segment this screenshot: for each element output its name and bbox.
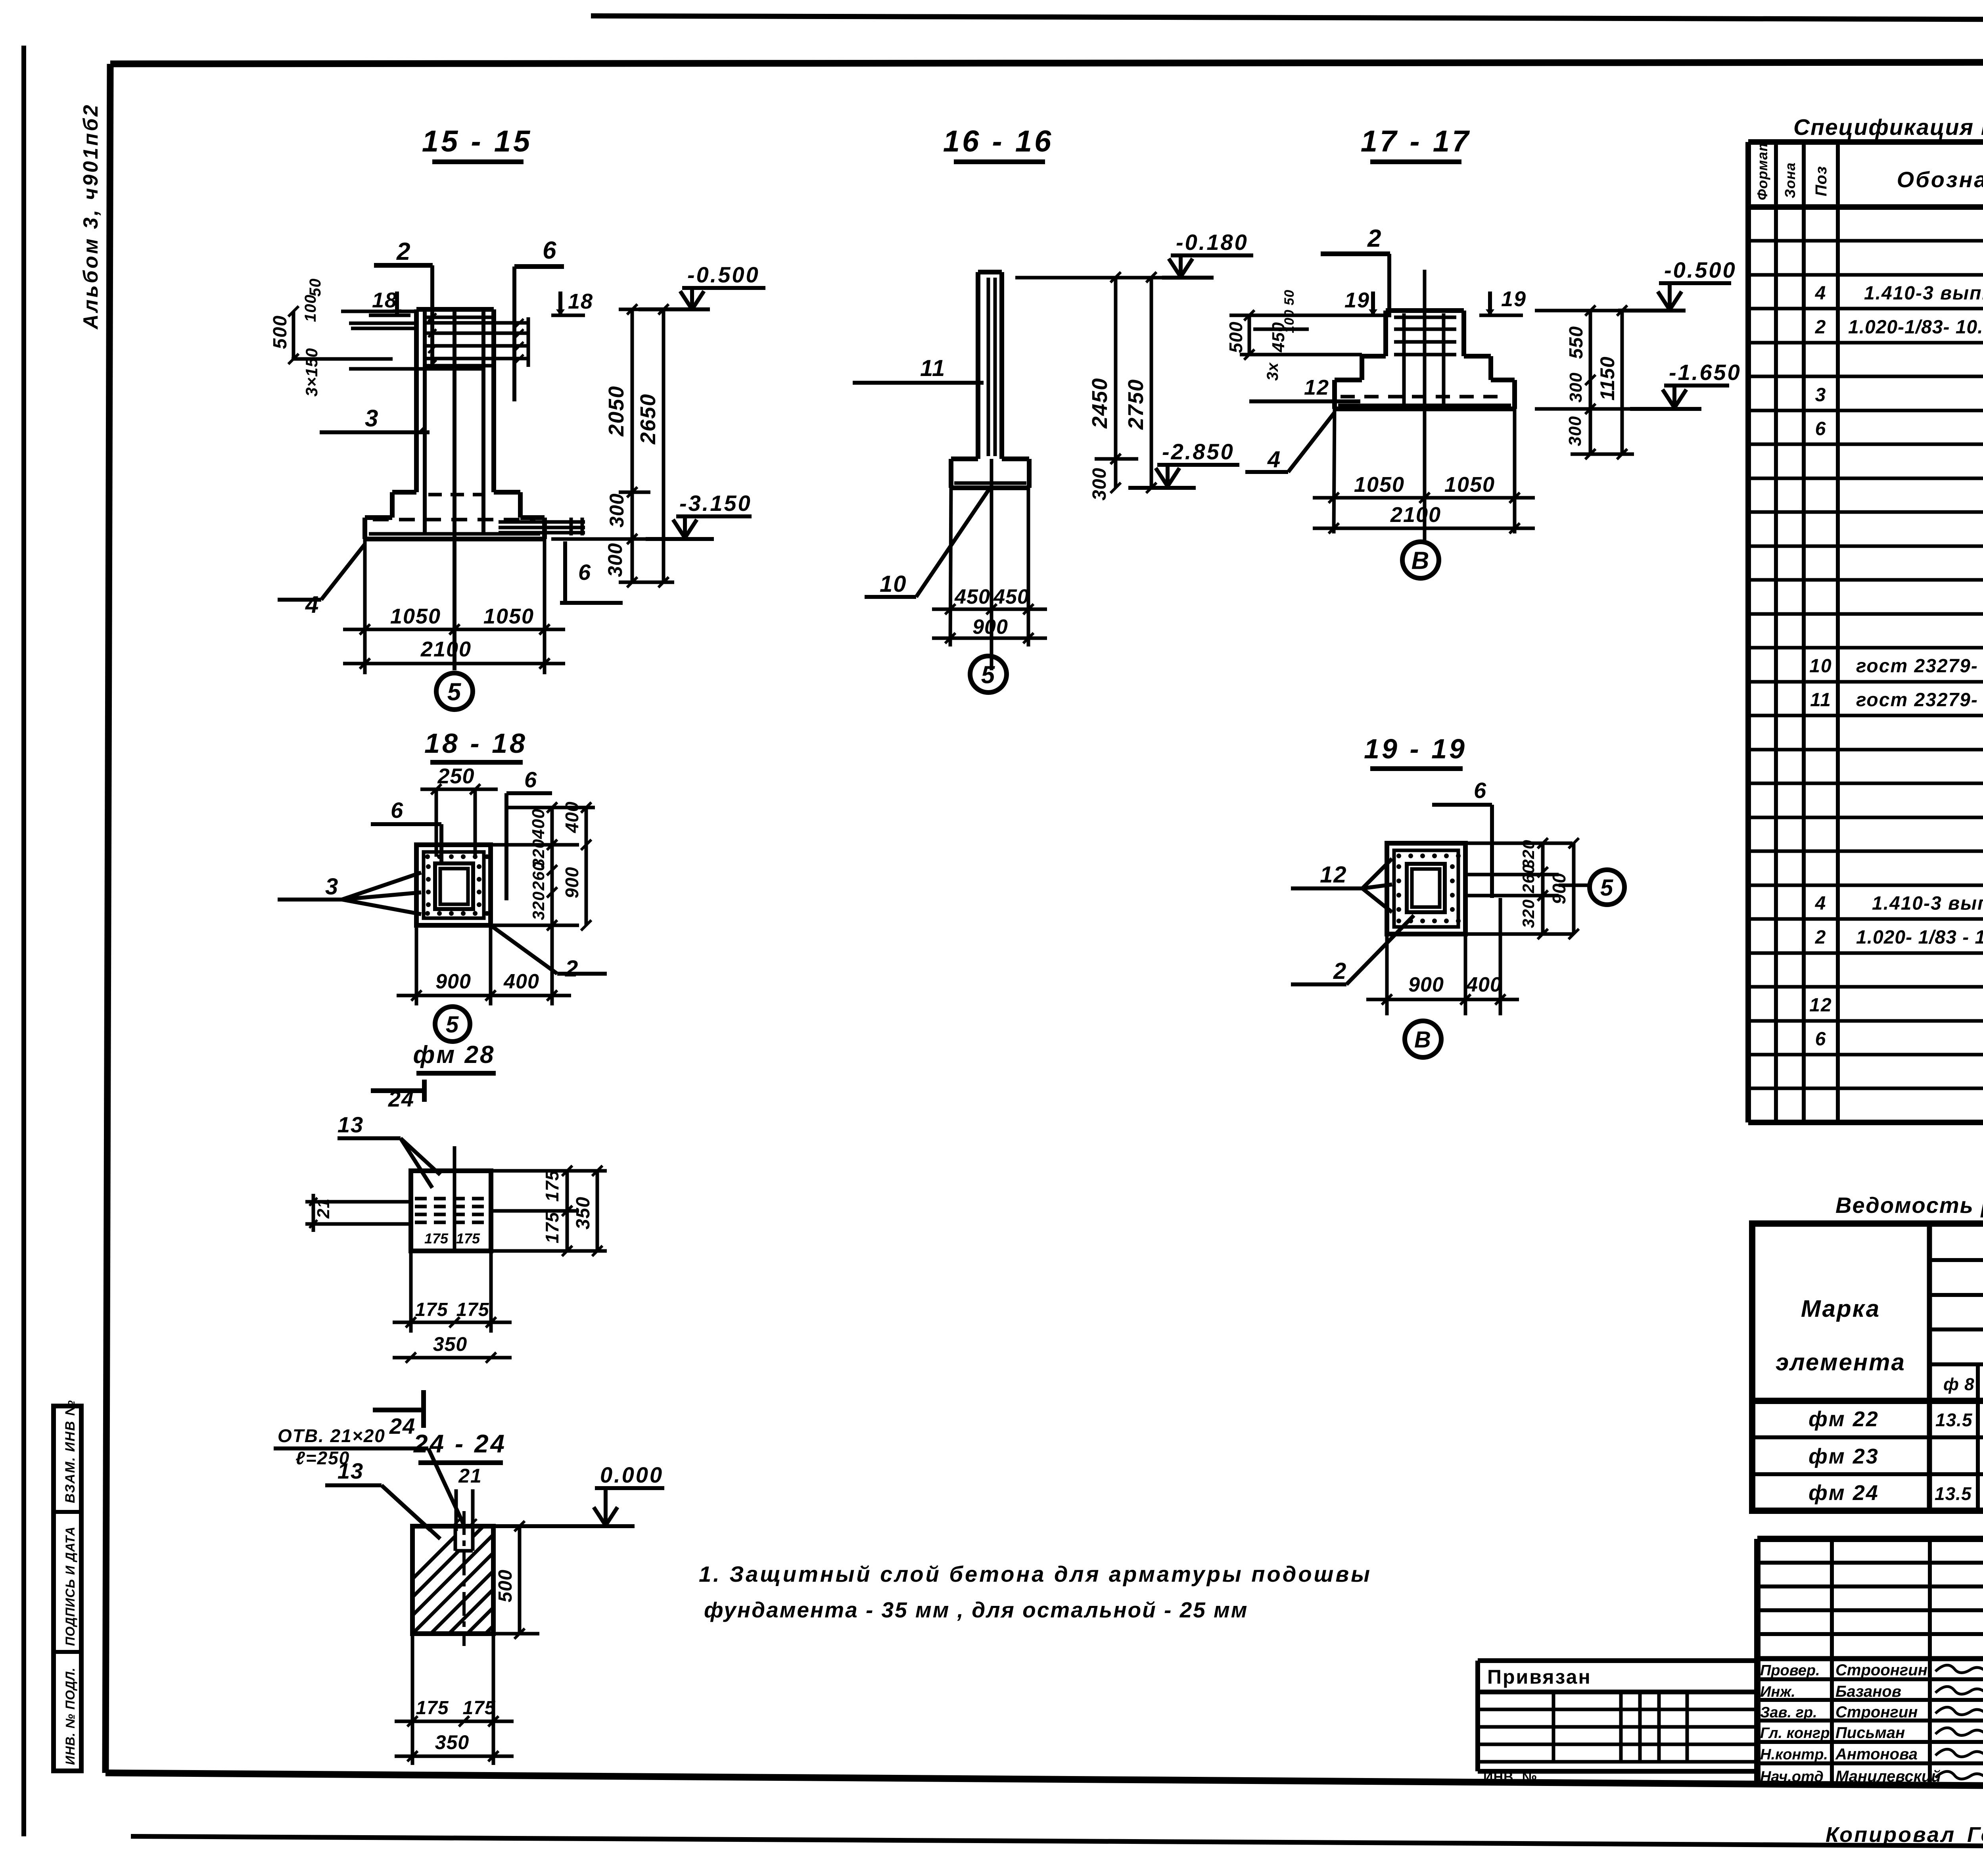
leader 4 (17-17) bbox=[1288, 412, 1335, 472]
svg-text:18 - 18: 18 - 18 bbox=[424, 728, 527, 759]
svg-text:гост 23279- 85: гост 23279- 85 bbox=[1856, 690, 1983, 711]
section cut marker 24 (upper) bbox=[371, 1088, 422, 1093]
svg-text:Поз: Поз bbox=[1812, 166, 1830, 196]
svg-text:1.020-1/83- 10.3 0-01: 1.020-1/83- 10.3 0-01 bbox=[1848, 317, 1983, 338]
dimension 2100 (15-15) bbox=[343, 662, 565, 666]
sheet outer bottom border bbox=[131, 1836, 1983, 1849]
svg-text:900: 900 bbox=[435, 970, 471, 993]
sheet outer left border bbox=[21, 46, 26, 1836]
dimension 550/300/300 (17-17) bbox=[1589, 311, 1592, 454]
svg-text:Н.контр.: Н.контр. bbox=[1760, 1746, 1828, 1763]
svg-text:2100: 2100 bbox=[420, 637, 472, 661]
rebar dots 19-19 bbox=[1396, 854, 1401, 858]
svg-text:Манилевский: Манилевский bbox=[1835, 1768, 1941, 1785]
svg-text:18: 18 bbox=[568, 290, 593, 313]
svg-text:13.5: 13.5 bbox=[1935, 1410, 1973, 1430]
svg-text:12: 12 bbox=[1320, 862, 1347, 888]
svg-text:Нач.отд: Нач.отд bbox=[1760, 1769, 1824, 1785]
svg-text:350: 350 bbox=[435, 1731, 469, 1753]
svg-text:500: 500 bbox=[270, 315, 291, 349]
svg-text:элемента: элемента bbox=[1776, 1349, 1906, 1375]
svg-text:1. Защитный слой бетона для ар: 1. Защитный слой бетона для арматуры под… bbox=[699, 1561, 1372, 1586]
svg-text:19 - 19: 19 - 19 bbox=[1364, 733, 1467, 764]
column of section 15-15 bbox=[416, 307, 494, 312]
section cut marker 24 (lower) bbox=[373, 1408, 421, 1412]
svg-text:ВЗАМ. ИНВ №: ВЗАМ. ИНВ № bbox=[63, 1400, 78, 1503]
dimension 1150 (17-17) bbox=[1621, 311, 1624, 454]
svg-text:19: 19 bbox=[1344, 288, 1370, 312]
leader 4 (15-15) bbox=[321, 544, 365, 600]
svg-text:Зона: Зона bbox=[1782, 162, 1798, 198]
svg-text:50: 50 bbox=[307, 278, 324, 297]
svg-text:300: 300 bbox=[604, 543, 626, 577]
dimension 1050+1050 (17-17) bbox=[1313, 496, 1535, 500]
dimension 500 (left 17-17) bbox=[1248, 315, 1251, 355]
svg-text:175: 175 bbox=[456, 1230, 480, 1247]
svg-text:ИНВ. № ПОДЛ.: ИНВ. № ПОДЛ. bbox=[63, 1667, 77, 1765]
svg-text:4: 4 bbox=[305, 591, 319, 618]
hatched block (24-24) bbox=[412, 1526, 493, 1634]
rebar cage 17-17 bbox=[1394, 316, 1456, 319]
svg-text:1050: 1050 bbox=[483, 604, 534, 628]
svg-text:13: 13 bbox=[338, 1458, 364, 1483]
svg-text:1.020- 1/83 - 10. 3. 0- 01: 1.020- 1/83 - 10. 3. 0- 01 bbox=[1856, 927, 1983, 948]
sheet outer top border bbox=[591, 16, 1983, 21]
svg-text:ОТВ. 21×20: ОТВ. 21×20 bbox=[278, 1425, 385, 1446]
svg-text:5: 5 bbox=[446, 1012, 459, 1038]
dimension 1050+1050 (15-15) bbox=[343, 628, 565, 631]
svg-text:3x: 3x bbox=[1264, 362, 1281, 381]
svg-text:-3.150: -3.150 bbox=[679, 491, 752, 516]
svg-text:1.410-3 вып. 1: 1.410-3 вып. 1 bbox=[1872, 893, 1983, 914]
svg-text:2: 2 bbox=[1815, 927, 1827, 948]
main frame bottom bbox=[105, 1773, 1983, 1790]
svg-text:5: 5 bbox=[447, 678, 462, 706]
axis circle 5 (16-16) bbox=[970, 656, 1007, 692]
rebar dashes in slice (24) bbox=[415, 1197, 487, 1201]
svg-text:2450: 2450 bbox=[1088, 378, 1112, 429]
hidden rebar dashes 15-15 bbox=[428, 493, 482, 497]
svg-text:Инж.: Инж. bbox=[1760, 1684, 1795, 1700]
svg-text:4: 4 bbox=[1815, 893, 1827, 914]
wall of section 16-16 bbox=[978, 270, 1002, 274]
svg-text:ИНВ. №: ИНВ. № bbox=[1483, 1770, 1537, 1785]
svg-text:Антонова: Антонова bbox=[1835, 1746, 1918, 1763]
bottom extension lines (15-15) bbox=[363, 539, 367, 674]
footing slab 15-15 bbox=[365, 515, 392, 520]
axis circle B (19-19) bbox=[1405, 1021, 1441, 1057]
svg-text:6: 6 bbox=[1474, 778, 1487, 803]
svg-text:10: 10 bbox=[1809, 656, 1832, 677]
dimension line 2650 (15-15) bbox=[662, 309, 665, 582]
svg-text:320: 320 bbox=[529, 891, 548, 920]
title block outer box bbox=[1757, 1536, 1983, 1542]
dimension line 2050/300/300 (15-15) bbox=[631, 309, 634, 582]
svg-text:400: 400 bbox=[1466, 973, 1502, 996]
svg-text:ПОДПИСЬ И ДАТА: ПОДПИСЬ И ДАТА bbox=[63, 1526, 77, 1646]
svg-text:фм 22: фм 22 bbox=[1808, 1407, 1879, 1431]
plan square 19-19 bbox=[1387, 843, 1465, 934]
svg-text:17 - 17: 17 - 17 bbox=[1361, 125, 1471, 158]
svg-text:15 - 15: 15 - 15 bbox=[422, 125, 533, 158]
svg-text:12: 12 bbox=[1809, 995, 1832, 1016]
svg-text:3×150: 3×150 bbox=[302, 348, 321, 397]
svg-text:16 - 16: 16 - 16 bbox=[943, 125, 1054, 158]
svg-text:300: 300 bbox=[606, 493, 628, 528]
svg-text:13.5: 13.5 bbox=[1935, 1483, 1972, 1504]
svg-text:320: 320 bbox=[1519, 899, 1538, 928]
svg-text:300: 300 bbox=[1565, 416, 1585, 446]
steel table grid bbox=[1752, 1224, 1983, 1511]
svg-text:6: 6 bbox=[1815, 1029, 1827, 1050]
svg-text:400: 400 bbox=[529, 809, 548, 839]
svg-text:24: 24 bbox=[388, 1086, 414, 1111]
left stamp boxes bbox=[54, 1406, 81, 1771]
svg-text:Провер.: Провер. bbox=[1760, 1662, 1820, 1679]
svg-text:500: 500 bbox=[495, 1569, 516, 1602]
svg-text:3: 3 bbox=[325, 874, 339, 900]
svg-text:175: 175 bbox=[415, 1299, 448, 1320]
left extension lines 17-17 bbox=[1229, 314, 1386, 317]
title block signature rows bbox=[1757, 1677, 1983, 1681]
svg-text:фм 24: фм 24 bbox=[1808, 1481, 1879, 1505]
axis circle 5 (18-18) bbox=[435, 1007, 470, 1042]
dimension 500 (24-24) bbox=[493, 1632, 539, 1636]
svg-text:260: 260 bbox=[529, 861, 548, 891]
svg-text:21: 21 bbox=[458, 1465, 482, 1487]
dimension 500 (left 15-15) bbox=[292, 311, 295, 359]
svg-text:2: 2 bbox=[1333, 958, 1347, 984]
svg-text:В: В bbox=[1414, 1027, 1432, 1053]
dimension 2100 (17-17) bbox=[1313, 527, 1535, 530]
bottom extension lines (16-16) bbox=[950, 488, 951, 646]
svg-text:175: 175 bbox=[416, 1698, 449, 1719]
svg-text:В: В bbox=[1411, 547, 1430, 574]
svg-text:Альбом 3, ч901пб2: Альбом 3, ч901пб2 bbox=[79, 103, 102, 330]
svg-text:350: 350 bbox=[433, 1333, 467, 1355]
svg-text:175: 175 bbox=[462, 1698, 495, 1719]
svg-text:24: 24 bbox=[389, 1414, 416, 1439]
svg-text:1.410-3 вып. 1: 1.410-3 вып. 1 bbox=[1864, 283, 1983, 304]
bottom dimensions 175+175 / 350 (24) bbox=[409, 1251, 413, 1333]
svg-text:фундамента - 35 мм , для остал: фундамента - 35 мм , для остальной - 25 … bbox=[704, 1598, 1248, 1622]
svg-text:2: 2 bbox=[1815, 317, 1827, 338]
svg-text:450: 450 bbox=[954, 585, 990, 608]
right dimensions 175/175/350 (24) bbox=[491, 1169, 607, 1173]
column slice rectangle (24) bbox=[411, 1171, 491, 1251]
svg-text:Формат: Формат bbox=[1754, 138, 1770, 200]
svg-text:450: 450 bbox=[993, 585, 1029, 608]
specification table grid bbox=[1745, 142, 1751, 1122]
dimension 450+450 (16-16) bbox=[932, 608, 1047, 611]
hole outline (24-24) bbox=[454, 1526, 457, 1551]
svg-text:5: 5 bbox=[981, 661, 995, 689]
footing steps 15-15 bbox=[392, 490, 416, 495]
svg-text:гост 23279- 85: гост 23279- 85 bbox=[1856, 656, 1983, 677]
privyazan grid bbox=[1478, 1708, 1757, 1711]
bottom extension lines (17-17) bbox=[1334, 409, 1335, 533]
svg-text:3: 3 bbox=[1815, 384, 1827, 405]
svg-text:1150: 1150 bbox=[1596, 356, 1619, 401]
svg-text:Спецификация монолитных фунд: Спецификация монолитных фундаментов фм22… bbox=[1793, 115, 1983, 140]
svg-text:250: 250 bbox=[437, 764, 474, 788]
svg-text:400: 400 bbox=[503, 970, 539, 993]
svg-text:18: 18 bbox=[372, 288, 397, 312]
svg-text:175: 175 bbox=[542, 1170, 562, 1202]
svg-text:3: 3 bbox=[365, 405, 379, 432]
svg-text:2050: 2050 bbox=[604, 386, 628, 437]
svg-text:260: 260 bbox=[1519, 864, 1538, 894]
privyazan box bbox=[1475, 1661, 1480, 1771]
svg-text:4: 4 bbox=[1267, 447, 1281, 472]
bottom dimensions 175+175 / 350 (24-24) bbox=[411, 1634, 414, 1765]
svg-text:400: 400 bbox=[562, 801, 582, 833]
rebar dots 18-18 bbox=[425, 854, 430, 859]
dimension 2450 (16-16) bbox=[1114, 277, 1118, 488]
svg-text:100: 100 bbox=[302, 294, 319, 322]
svg-text:-0.500: -0.500 bbox=[687, 262, 760, 287]
dimension 2750 (16-16) bbox=[1150, 277, 1153, 488]
main frame top bbox=[110, 62, 1983, 64]
svg-text:11: 11 bbox=[1810, 690, 1831, 711]
svg-text:900: 900 bbox=[972, 616, 1008, 639]
svg-text:Марка: Марка bbox=[1801, 1295, 1880, 1322]
pedestal of section 17-17 bbox=[1386, 308, 1464, 313]
svg-text:2650: 2650 bbox=[636, 393, 660, 445]
axis circle B (17-17) bbox=[1402, 542, 1439, 578]
svg-text:10: 10 bbox=[880, 571, 907, 597]
svg-text:19: 19 bbox=[1501, 287, 1527, 311]
svg-text:175: 175 bbox=[542, 1212, 562, 1243]
svg-text:Привязан: Привязан bbox=[1487, 1666, 1592, 1688]
svg-text:Гл. конгр: Гл. конгр bbox=[1760, 1725, 1830, 1742]
right links to axis 5 (19-19) bbox=[1465, 873, 1559, 877]
svg-text:300: 300 bbox=[1089, 468, 1110, 501]
right dimensions 18-18 bbox=[491, 843, 579, 847]
signature scribbles bbox=[1935, 1665, 1983, 1673]
rebar cage in column head 15-15 bbox=[425, 316, 494, 319]
svg-text:0.000: 0.000 bbox=[600, 1462, 664, 1487]
svg-text:Обозначение: Обозначение bbox=[1897, 167, 1983, 192]
leader 11 (16-16) bbox=[853, 381, 984, 385]
svg-text:-0.180: -0.180 bbox=[1176, 230, 1248, 255]
footing slab 16-16 bbox=[951, 457, 978, 461]
svg-text:900: 900 bbox=[1549, 873, 1569, 904]
svg-text:Базанов: Базанов bbox=[1835, 1683, 1901, 1700]
lower 6 marker (15-15) bbox=[563, 541, 567, 603]
svg-text:-0.500: -0.500 bbox=[1664, 257, 1737, 282]
leader 10 (16-16) bbox=[865, 595, 916, 599]
svg-text:Годлевская: Годлевская bbox=[1967, 1823, 1983, 1847]
svg-text:2: 2 bbox=[1367, 225, 1382, 252]
section cut marker 2 (17-17) bbox=[1321, 251, 1390, 256]
svg-text:2750: 2750 bbox=[1124, 379, 1148, 430]
svg-text:12: 12 bbox=[1304, 376, 1329, 399]
svg-text:11: 11 bbox=[920, 355, 945, 381]
svg-text:175: 175 bbox=[424, 1230, 449, 1247]
rebar leader 3 (15-15) bbox=[320, 430, 430, 434]
svg-text:175: 175 bbox=[456, 1299, 489, 1320]
bottom rebar hooks 15-15 bbox=[499, 520, 585, 524]
svg-text:Зав. гр.: Зав. гр. bbox=[1760, 1704, 1817, 1721]
svg-text:24 - 24: 24 - 24 bbox=[413, 1429, 506, 1458]
svg-text:-2.850: -2.850 bbox=[1162, 439, 1235, 464]
svg-text:Строонгин: Строонгин bbox=[1835, 1661, 1927, 1679]
left extension lines 15-15 bbox=[341, 310, 416, 313]
svg-text:Копировал: Копировал bbox=[1826, 1823, 1956, 1847]
axis circle 5 (15-15) bbox=[436, 673, 473, 710]
bottom dimension 900+400 (19-19) bbox=[1385, 934, 1389, 1015]
svg-text:Ведомость расхода стали н: Ведомость расхода стали на один элемент,… bbox=[1835, 1193, 1983, 1218]
svg-text:21: 21 bbox=[314, 1198, 333, 1219]
main frame left bbox=[105, 64, 110, 1773]
svg-text:ф 8: ф 8 bbox=[1943, 1375, 1975, 1394]
section cut marker 6 (15-15) bbox=[514, 264, 564, 269]
right dimensions 19-19 bbox=[1465, 842, 1573, 845]
svg-text:Письман: Письман bbox=[1835, 1724, 1905, 1742]
svg-text:100 50: 100 50 bbox=[1282, 290, 1297, 333]
svg-text:550: 550 bbox=[1566, 326, 1587, 359]
svg-text:6: 6 bbox=[1815, 418, 1827, 439]
svg-text:4: 4 bbox=[1815, 283, 1827, 304]
svg-text:Стронгин: Стронгин bbox=[1835, 1703, 1918, 1721]
dimension 900 (16-16) bbox=[932, 637, 1047, 640]
svg-text:2: 2 bbox=[565, 956, 579, 982]
svg-text:2: 2 bbox=[396, 238, 411, 265]
svg-text:6: 6 bbox=[578, 560, 591, 585]
svg-text:350: 350 bbox=[573, 1197, 594, 1230]
svg-text:фм 28: фм 28 bbox=[413, 1041, 495, 1068]
axis circle 5 (19-19) bbox=[1590, 870, 1624, 905]
svg-text:900: 900 bbox=[562, 867, 582, 898]
bottom dimension 900+400 (18-18) bbox=[415, 925, 418, 1005]
svg-text:1050: 1050 bbox=[390, 604, 441, 628]
svg-text:2100: 2100 bbox=[1390, 503, 1441, 527]
svg-text:6: 6 bbox=[391, 798, 404, 823]
centerline of hole bbox=[462, 1511, 466, 1646]
title block left grid verticals bbox=[1830, 1539, 1834, 1786]
svg-text:1050: 1050 bbox=[1444, 473, 1495, 497]
svg-text:5: 5 bbox=[1600, 875, 1614, 901]
svg-text:6: 6 bbox=[543, 237, 557, 264]
svg-text:900: 900 bbox=[1408, 973, 1444, 996]
section cut marker 2 (15-15) bbox=[374, 263, 433, 268]
svg-text:-1.650: -1.650 bbox=[1669, 360, 1741, 385]
svg-text:300: 300 bbox=[1566, 372, 1586, 403]
svg-text:500: 500 bbox=[1225, 321, 1246, 353]
svg-text:13: 13 bbox=[338, 1112, 364, 1137]
svg-text:1050: 1050 bbox=[1354, 473, 1405, 497]
svg-text:фм 23: фм 23 bbox=[1808, 1444, 1879, 1468]
svg-text:6: 6 bbox=[524, 767, 537, 792]
plan square 18-18 bbox=[416, 845, 491, 925]
title block small rows bbox=[1757, 1561, 1983, 1565]
